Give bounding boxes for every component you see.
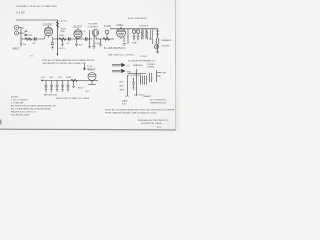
svg-text:HEATERS: HEATERS (133, 64, 143, 67)
svg-text:NOTE: SEE PAGE 2: NOTE: SEE PAGE 2 (128, 17, 148, 20)
svg-text:SPEAKER: SPEAKER (162, 39, 172, 42)
svg-text:GRN: GRN (120, 90, 125, 92)
tube V2 (74, 30, 82, 38)
svg-text:CONTROL: CONTROL (88, 27, 99, 29)
cathode V2 (75, 37, 78, 46)
svg-text:A.C.: A.C. (86, 90, 90, 93)
svg-text:ALL RESISTORS 1/2 WATT UNLESS: ALL RESISTORS 1/2 WATT UNLESS NOTED 20% (11, 105, 57, 108)
svg-text:VOLUME: VOLUME (88, 24, 98, 26)
svg-text:5Y3GT: 5Y3GT (88, 69, 96, 72)
svg-text:RESISTORS 1/2 WATT 10% OHMS: RESISTORS 1/2 WATT 10% OHMS (56, 97, 90, 100)
filter cap 2 (50, 81, 53, 93)
paper background (0, 0, 180, 135)
cathode V3 (123, 37, 127, 45)
ground pot out (99, 39, 102, 47)
resistor power (71, 79, 78, 82)
svg-text:FENDER ELECT. INST. CO.: FENDER ELECT. INST. CO. (11, 112, 37, 114)
resistor grid vertical (25, 30, 28, 37)
left edge mark (0, 120, 1, 125)
svg-text:6.3 V WINDING: 6.3 V WINDING (128, 75, 142, 77)
input jack J1 (15, 26, 19, 30)
svg-text:2. TONE CAP.: 2. TONE CAP. (11, 102, 24, 105)
AC plug (157, 70, 162, 82)
arrow out 1 (112, 63, 125, 66)
svg-text:CHAMPION 600: CHAMPION 600 (150, 102, 167, 105)
page right margin shade (176, 0, 181, 135)
svg-text:USE 1 MEG VOL. CONTROL: USE 1 MEG VOL. CONTROL (108, 55, 135, 57)
capacitor C3 (69, 37, 71, 41)
svg-text:SCHEMATIC OF MODEL 5C1 AMPLIFI: SCHEMATIC OF MODEL 5C1 AMPLIFIER (16, 5, 57, 8)
svg-text:VOLTAGES SHOWN ARE D.C.: VOLTAGES SHOWN ARE D.C. (128, 60, 156, 63)
speaker SP (154, 45, 158, 49)
wire plate (51, 26, 54, 39)
svg-text:350 V: 350 V (78, 88, 84, 90)
filter cap 1 (45, 81, 48, 93)
svg-text:RED: RED (120, 86, 125, 88)
transformer secondary lines (151, 30, 153, 39)
arrow out 2 (112, 69, 125, 72)
svg-text:1M: 1M (23, 44, 26, 46)
resistor R1 (25, 38, 32, 41)
volume pot (92, 29, 98, 35)
svg-text:DATE: DATE (122, 100, 128, 103)
resistor plate on vertical (56, 22, 58, 28)
resistor R3 (59, 38, 66, 41)
svg-text:ALL CONDENSERS 600 V UNLESS RA: ALL CONDENSERS 600 V UNLESS RATED (11, 108, 51, 111)
speaker secondary coil (155, 38, 158, 44)
caps left of transformer (132, 78, 135, 89)
svg-text:8-52: 8-52 (122, 104, 127, 106)
cathode R2 C2 (51, 37, 54, 50)
svg-text:NOTE: ALL VOLTAGES MEASURED WI: NOTE: ALL VOLTAGES MEASURED WITH 1000 OH… (105, 109, 175, 112)
page bottom margin shade (0, 130, 180, 135)
filter cap 3 (56, 81, 59, 92)
input jack J2 (15, 31, 19, 35)
svg-text:P-1: P-1 (30, 56, 33, 58)
svg-text:POWER: POWER (147, 64, 155, 66)
svg-text:1000 OHM PER VOLT METER. LINE: 1000 OHM PER VOLT METER. LINE VOLTAGE 11… (42, 62, 86, 65)
power bus (42, 80, 99, 82)
filter cap 4 (61, 81, 64, 92)
svg-text:NOTES:: NOTES: (11, 97, 19, 99)
wire jack (19, 28, 22, 40)
wire v3 down (127, 29, 129, 44)
svg-text:12SJ7GT: 12SJ7GT (73, 27, 83, 29)
svg-text:B + 305 VOLTS D.C.: B + 305 VOLTS D.C. (104, 47, 126, 50)
wire pot to v3 (96, 38, 114, 40)
svg-text:.25W: .25W (60, 31, 65, 33)
wire signal main (21, 38, 44, 40)
ground speaker (156, 49, 159, 54)
bus b+ (110, 29, 158, 38)
ticks on speaker feed (156, 31, 159, 34)
resistor R5 (103, 38, 110, 41)
svg-text:1. VOL. CONTROL: 1. VOL. CONTROL (11, 100, 29, 102)
svg-text:OUTPUT: OUTPUT (140, 26, 150, 28)
rectifier tube V4 (88, 73, 96, 81)
wire rect (88, 81, 96, 85)
filter cap 5 (67, 81, 70, 92)
svg-text:6V6G: 6V6G (117, 23, 124, 27)
svg-text:FULLERTON, CALIF.: FULLERTON, CALIF. (141, 122, 162, 125)
svg-text:16MF: 16MF (66, 77, 72, 79)
capacitor C4 (86, 37, 88, 41)
svg-text:GND: GND (127, 72, 132, 74)
page edge right (174, 0, 177, 130)
svg-text:CHAMP: CHAMP (143, 95, 151, 98)
svg-text:SW: SW (163, 73, 166, 75)
svg-text:C-1 NO: C-1 NO (16, 11, 25, 15)
svg-text:FROM CHASSIS GROUND. LINE VOLT: FROM CHASSIS GROUND. LINE VOLTAGE 117 V.… (105, 112, 158, 115)
page edge bottom (0, 128, 176, 131)
ground jack (20, 44, 22, 46)
capacitor C1 (35, 37, 37, 41)
svg-text:P-2545: P-2545 (140, 56, 148, 58)
drop resistor mid (61, 39, 64, 46)
B+ feed arrow (84, 63, 86, 70)
svg-text:8MF 8MF 450V: 8MF 8MF 450V (44, 95, 58, 97)
svg-text:.02: .02 (83, 31, 86, 33)
wire v2 out (72, 38, 92, 40)
svg-text:+ 22.5 V: + 22.5 V (59, 21, 68, 23)
drop 6 (72, 81, 75, 88)
filter caps (132, 30, 135, 33)
wire jack2 (19, 32, 22, 34)
wire top bus (16, 20, 58, 54)
svg-text:12SJ7GT: 12SJ7GT (43, 25, 53, 27)
wire v1 to v2 (53, 38, 72, 40)
divider wire (88, 30, 91, 48)
svg-text:FENDER ELECTRIC INST. CO.: FENDER ELECTRIC INST. CO. (138, 120, 169, 122)
svg-text:+100V: +100V (60, 29, 67, 31)
tube V1 (44, 27, 52, 35)
svg-text:6.3V: 6.3V (41, 77, 46, 79)
svg-text:+105 V: +105 V (58, 48, 66, 50)
svg-text:6x9 P.M.: 6x9 P.M. (162, 46, 170, 48)
svg-text:NOTE: ALL VOLTAGES MEASURED FR: NOTE: ALL VOLTAGES MEASURED FROM CHASSIS… (42, 59, 95, 62)
tube V3 (117, 28, 126, 37)
svg-text:TRANS: TRANS (147, 66, 155, 69)
svg-text:FULLERTON, CALIF.: FULLERTON, CALIF. (11, 114, 30, 117)
svg-text:INPUT: INPUT (13, 49, 20, 51)
svg-text:8 MF: 8 MF (132, 43, 137, 45)
svg-text:100K: 100K (59, 35, 65, 37)
svg-text:NO. OF MODEL: NO. OF MODEL (150, 100, 167, 102)
output transformer T1 (142, 29, 148, 39)
svg-text:68K: 68K (24, 35, 28, 37)
node arrow end (57, 54, 59, 57)
trim knob (105, 30, 109, 34)
power transformer (128, 69, 153, 96)
wire t1 (149, 39, 153, 44)
svg-text:P-12Q: P-12Q (104, 25, 111, 28)
